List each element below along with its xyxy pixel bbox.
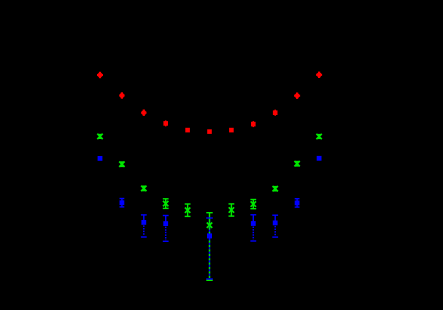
green X data point 8 with error bar (250, 199, 256, 210)
green X data point 4 with error bar (163, 198, 169, 209)
blue square data point 9 with asymmetric error bar (272, 215, 278, 238)
red square data point 9 with error bar (273, 110, 278, 116)
green X data point 1 with error bar (97, 134, 102, 139)
red square data point 10 with error bar (294, 93, 300, 99)
red square data point 11 with error bar (316, 72, 322, 78)
green X data point 9 with error bar (273, 186, 278, 192)
red square data point 2 with error bar (119, 92, 124, 98)
red square data point 3 with error bar (141, 110, 146, 116)
blue square data point 6 with asymmetric error bar (206, 217, 213, 279)
green X data point 7 with error bar (229, 203, 235, 217)
red square data point 1 with error bar (97, 72, 103, 78)
blue square data point 4 with asymmetric error bar (163, 215, 169, 242)
blue square data point 10 with asymmetric error bar (295, 198, 300, 208)
green X data point 6 with error bar (206, 212, 212, 281)
blue center point upper error bar line (209, 218, 210, 236)
red square data point 6 with error bar (207, 129, 212, 134)
blue square data point 1 with asymmetric error bar (98, 156, 103, 161)
blue square data point 2 with asymmetric error bar (120, 198, 125, 208)
red square data point 4 with error bar (163, 120, 168, 126)
green X data point 3 with error bar (141, 186, 146, 192)
blue square data point 8 with asymmetric error bar (250, 214, 256, 242)
green X data point 2 with error bar (119, 161, 124, 167)
green X data point 11 with error bar (316, 134, 321, 139)
blue square data point 3 with asymmetric error bar (141, 214, 147, 238)
blue square data point 11 with asymmetric error bar (317, 156, 322, 161)
red square data point 7 with error bar (229, 128, 234, 133)
green X data point 5 with error bar (185, 203, 191, 217)
green X data point 10 with error bar (294, 161, 299, 167)
red square data point 5 with error bar (185, 128, 190, 133)
red square data point 8 with error bar (251, 121, 256, 127)
